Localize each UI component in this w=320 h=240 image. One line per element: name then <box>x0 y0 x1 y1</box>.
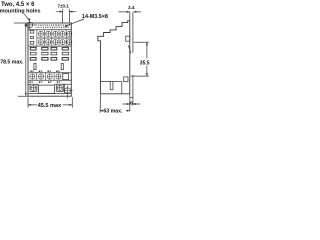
dim text 63 max <box>103 109 123 115</box>
terminal grid rows 1-2 lines <box>28 30 71 46</box>
rail hook bottom <box>124 77 128 82</box>
side view shelf and release slot <box>101 81 122 83</box>
dim 7±0.1 dimension line and arrows <box>56 11 76 13</box>
dim 3.4 dimension line and arrows <box>118 11 141 13</box>
keying slot right <box>61 63 63 69</box>
dim text 6 <box>130 100 133 105</box>
mounting hole 1 centerlines <box>24 21 35 30</box>
dim 6 dimension line and arrows <box>122 103 140 105</box>
svg-text:6: 6 <box>130 100 133 105</box>
terminal number text row (middle) <box>30 71 59 72</box>
dim 63 max dimension line and arrows <box>100 110 130 112</box>
relay pin slots row M1 <box>30 47 68 50</box>
front view body outline <box>28 23 71 96</box>
mounting hole 2 (bottom-right, 4.5x6 slot) <box>65 88 71 93</box>
dim 35.5 extension lines <box>131 42 149 76</box>
leader to mounting hole 1 <box>24 14 29 21</box>
row 4 coil terminal boxes <box>28 84 71 93</box>
svg-text:45.5 max: 45.5 max <box>38 103 63 109</box>
rail hook spring diagonal <box>128 45 131 53</box>
svg-text:35.5: 35.5 <box>140 60 150 66</box>
screw terminal row 1 (M3.5 screws with cross slots) <box>38 31 72 36</box>
dim 7±0.1 extension lines <box>63 9 70 23</box>
screw terminal row 3 <box>30 74 61 79</box>
dim text 45.5 max <box>38 103 63 109</box>
svg-text:mounting holes: mounting holes <box>0 8 41 14</box>
svg-text:14-M3.5×8: 14-M3.5×8 <box>82 14 108 20</box>
dim 78.5 max extension lines <box>14 23 28 96</box>
dim 6 extension lines <box>130 98 133 112</box>
screw terminal row 2 <box>38 40 72 45</box>
relay pin slots row M2 <box>30 52 68 55</box>
front view base plate line <box>28 93 71 95</box>
note text: Two, 4.5 x 6 mounting holes <box>0 2 41 14</box>
dim 45.5 max extension lines <box>28 97 72 107</box>
dim text 7±0.1 <box>57 4 69 9</box>
terminal number text row (top) <box>35 24 70 28</box>
screw terminal row 4 right <box>57 85 62 90</box>
terminal number text row (bottom) <box>29 82 60 83</box>
left column small holes <box>30 31 34 34</box>
mounting hole 2 centerlines <box>62 86 73 99</box>
dim 3.4 text <box>128 5 135 10</box>
svg-text:Two, 4.5 × 6: Two, 4.5 × 6 <box>1 2 35 8</box>
rail hook top <box>126 36 130 41</box>
dim 78.5 max dimension line <box>25 23 27 96</box>
terminal grid row 3 lines <box>28 73 71 81</box>
relay pin slots row M3 <box>30 58 68 61</box>
rail latch channel <box>121 82 123 94</box>
svg-text:7±0.1: 7±0.1 <box>57 4 69 9</box>
leader from 14-M3.5x8 to terminal screws <box>66 19 84 26</box>
DIN rail / panel back line <box>130 12 133 97</box>
dim text 78.5 max <box>0 59 24 65</box>
terminal grid verticals <box>37 30 66 46</box>
dim 45.5 max dimension line and arrows <box>28 104 72 106</box>
dim 35.5 dimension line and arrows <box>146 42 148 76</box>
dim text 35.5 <box>140 60 150 66</box>
ejector window rectangle <box>39 85 55 93</box>
dim 63 max left extension <box>99 95 101 113</box>
screw terminal row 4 left <box>31 85 36 90</box>
keying slot left <box>34 63 36 69</box>
label 14-M3.5x8 <box>82 14 108 20</box>
svg-text:63 max.: 63 max. <box>103 109 123 115</box>
empty terminal box row 3 <box>63 74 69 80</box>
mounting hole 1 (top-left, 4.5x6 slot) <box>27 22 33 27</box>
svg-text:3.4: 3.4 <box>128 5 135 10</box>
svg-text:78.5 max.: 78.5 max. <box>0 59 24 65</box>
side view profile outline <box>98 21 130 94</box>
